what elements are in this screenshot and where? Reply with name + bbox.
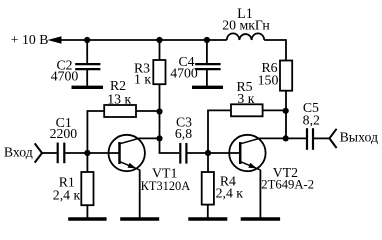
svg-text:+ 10 В: + 10 В xyxy=(11,32,49,47)
label 2200 (C1) xyxy=(50,126,78,141)
resistor R4 xyxy=(202,153,214,205)
capacitor C5 xyxy=(307,128,313,150)
node: R2/R3 xyxy=(156,108,162,114)
label +10 V xyxy=(11,32,49,47)
wire: L1 to R6 corner xyxy=(264,39,286,60)
wire: C1 to base node xyxy=(65,152,87,154)
label R5 xyxy=(236,79,252,94)
capacitor C2 xyxy=(75,40,100,86)
capacitor C4 xyxy=(195,40,220,86)
svg-text:1 к: 1 к xyxy=(134,71,151,86)
ground (R4) xyxy=(188,205,227,219)
wire: top rail xyxy=(60,39,227,41)
capacitor C1 xyxy=(58,143,65,164)
label 4700 (C4) xyxy=(170,66,198,81)
svg-text:2200: 2200 xyxy=(50,126,78,141)
label KT3120A xyxy=(141,179,191,193)
label Vhod xyxy=(4,144,33,159)
output terminal xyxy=(329,129,336,148)
label VT1 xyxy=(152,166,177,181)
svg-text:4700: 4700 xyxy=(51,69,79,84)
label 8,2 (C5) xyxy=(303,112,320,127)
node: VT2 collector/C5 xyxy=(283,135,289,141)
svg-text:6,8: 6,8 xyxy=(175,126,192,141)
svg-text:8,2: 8,2 xyxy=(303,112,320,127)
label R1 xyxy=(59,175,75,190)
label VT2 xyxy=(273,165,298,180)
label Vyhod xyxy=(340,129,378,144)
wire: R3 node down to collector node xyxy=(159,112,161,139)
power arrow xyxy=(48,36,62,44)
svg-text:КТ3120А: КТ3120А xyxy=(141,179,191,193)
resistor R3 xyxy=(153,40,165,112)
wire: VT2 base xyxy=(208,152,240,154)
node: rail/C2 xyxy=(84,37,90,43)
label C5 xyxy=(303,100,319,115)
label C1 xyxy=(56,115,72,130)
label R6 xyxy=(261,60,277,75)
node: rail/R3 xyxy=(156,37,162,43)
ground (VT2 emitter) xyxy=(241,170,280,219)
wire: collector node to C5 xyxy=(286,137,306,139)
node: R5/R6 xyxy=(283,108,289,114)
label R3 xyxy=(134,60,150,75)
resistor R5 xyxy=(207,104,286,153)
svg-text:2,4 к: 2,4 к xyxy=(216,185,244,200)
wire: collector node down and right to C3 xyxy=(159,138,180,153)
ground (VT1 emitter) xyxy=(120,170,159,219)
wire: base node to VT1 xyxy=(87,152,119,154)
svg-text:2Т649А-2: 2Т649А-2 xyxy=(261,177,314,191)
label L1 xyxy=(237,6,253,22)
svg-text:2,4 к: 2,4 к xyxy=(53,187,81,202)
label C4 xyxy=(178,54,194,69)
svg-text:150: 150 xyxy=(258,72,279,87)
svg-text:13 к: 13 к xyxy=(107,91,131,106)
label 1 k (R3) xyxy=(134,71,151,86)
node: VT1 collector xyxy=(156,135,162,141)
svg-text:Выход: Выход xyxy=(340,129,378,144)
wire: C5 to output xyxy=(314,137,330,139)
label 150 (R6) xyxy=(258,72,279,87)
resistor R6 xyxy=(280,61,292,139)
label R2 xyxy=(110,78,126,93)
node: rail/C4/L1 xyxy=(204,37,210,43)
label R4 xyxy=(220,174,236,189)
svg-text:Вход: Вход xyxy=(4,144,33,159)
label 20 uH xyxy=(222,17,270,32)
label 4700 (C2) xyxy=(51,69,79,84)
label 2,4 k (R1) xyxy=(53,187,81,202)
label 13 k (R2) xyxy=(107,91,131,106)
inductor L1 xyxy=(227,33,264,40)
wire: input to C1 xyxy=(42,152,57,154)
node: C3/R5/R4/VT2 base xyxy=(205,150,211,156)
wire: C3 to node xyxy=(187,152,208,154)
transistor VT1 xyxy=(109,135,160,171)
ground (R1) xyxy=(68,205,106,219)
svg-text:20 мкГн: 20 мкГн xyxy=(222,17,270,32)
label 2,4 k (R4) xyxy=(216,185,244,200)
input terminal xyxy=(35,143,42,162)
resistor R1 xyxy=(81,153,93,205)
label 3 k (R5) xyxy=(237,91,254,106)
resistor R2 xyxy=(87,105,159,153)
label 2T649A-2 xyxy=(261,177,314,191)
label C3 xyxy=(176,115,192,130)
svg-text:3 к: 3 к xyxy=(237,91,254,106)
ground (C4) xyxy=(192,86,223,89)
transistor VT2 xyxy=(229,135,286,171)
label C2 xyxy=(56,58,72,73)
svg-text:4700: 4700 xyxy=(170,66,198,81)
label 6,8 (C3) xyxy=(175,126,192,141)
ground (C2) xyxy=(72,86,104,89)
node: C1/R1/VT1 base xyxy=(84,150,90,156)
capacitor C3 xyxy=(180,143,186,164)
